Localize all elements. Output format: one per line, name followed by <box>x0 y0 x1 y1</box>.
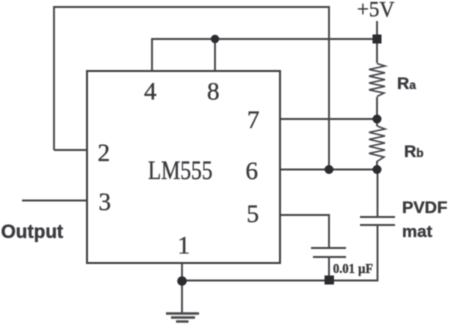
IC U1 LM555 box <box>87 71 280 263</box>
capacitor 0.01uF bottom plate <box>313 256 346 258</box>
junction node: +5V rail (square) <box>373 35 382 44</box>
wire: rail down to PVDF cap <box>377 170 379 218</box>
wire: Ra to Rb <box>376 97 378 126</box>
capacitor PVDF bottom plate <box>360 224 395 226</box>
capacitor 0.01uF top plate <box>311 247 346 249</box>
junction node: pin1/ground <box>177 276 187 286</box>
wire: pin 2 lead <box>54 149 87 151</box>
svg-text:7: 7 <box>247 107 260 134</box>
svg-text:6: 6 <box>246 158 259 185</box>
ground bar 3 <box>176 320 189 322</box>
ground bar 2 <box>171 316 195 318</box>
svg-text:mat: mat <box>402 222 433 241</box>
wire: pin4/pin8 to +5V loop <box>152 39 377 71</box>
wire: pin 1 lead <box>181 263 183 313</box>
capacitor PVDF top plate <box>360 216 395 218</box>
svg-text:+5V: +5V <box>357 0 395 21</box>
junction node: Ra/Rb pin7 <box>373 115 382 124</box>
wire: pin 5 lead <box>280 215 329 248</box>
wire: pin2 to pin6 outer loop <box>54 7 329 170</box>
wire: 0.01uF to bottom rail <box>328 257 330 281</box>
junction node: Rb/pin6 <box>373 165 382 174</box>
svg-text:PVDF: PVDF <box>402 198 447 217</box>
wire: pin 3 output lead <box>22 200 87 202</box>
svg-text:8: 8 <box>207 79 220 106</box>
resistor Ra <box>369 64 385 97</box>
svg-text:Output: Output <box>1 222 64 243</box>
svg-text:0.01 µF: 0.01 µF <box>333 262 373 277</box>
wire: pin 7 lead <box>280 118 377 120</box>
svg-text:LM555: LM555 <box>148 156 213 185</box>
svg-text:Rb: Rb <box>404 142 424 161</box>
junction node: 0.01uF/bottom rail (square) <box>325 276 335 285</box>
ground bar 1 <box>166 312 199 315</box>
wire: +5V stub <box>376 21 378 63</box>
svg-text:3: 3 <box>99 189 112 216</box>
wire: PVDF to bottom rail <box>182 225 378 281</box>
junction node: pin8/VCC <box>211 35 219 43</box>
wire: pin 8 lead <box>214 39 216 71</box>
svg-text:1: 1 <box>178 233 191 260</box>
resistor Rb <box>369 126 385 162</box>
svg-text:5: 5 <box>247 201 260 228</box>
junction node: outer loop/pin6 <box>325 165 334 174</box>
svg-text:2: 2 <box>98 140 111 167</box>
wire: Rb to pin6 rail <box>376 161 378 170</box>
wire: pin 6 lead <box>280 169 377 171</box>
svg-text:4: 4 <box>144 79 157 106</box>
svg-text:Ra: Ra <box>397 74 416 93</box>
